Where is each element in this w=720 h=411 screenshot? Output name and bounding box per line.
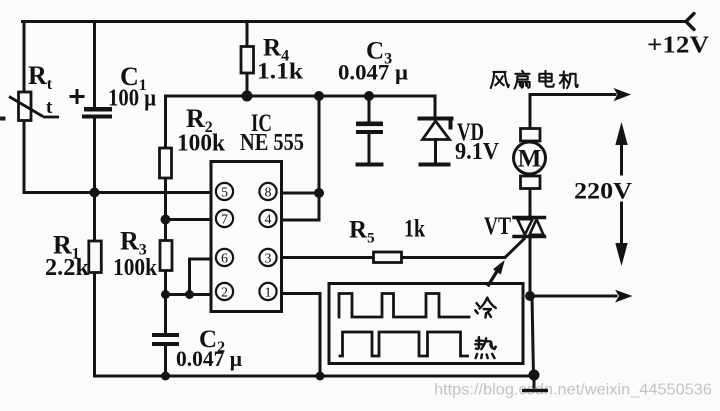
svg-text:220V: 220V <box>574 179 632 204</box>
svg-text:8: 8 <box>265 185 272 200</box>
svg-text:9.1V: 9.1V <box>455 139 500 165</box>
svg-text:M: M <box>518 146 542 173</box>
svg-text:R5: R5 <box>349 217 375 247</box>
svg-text:0.047 μ: 0.047 μ <box>176 346 242 371</box>
svg-text:Rt: Rt <box>28 61 53 93</box>
svg-text:4: 4 <box>265 212 272 227</box>
svg-text:2.2k: 2.2k <box>45 255 90 281</box>
svg-text:100k: 100k <box>177 131 226 157</box>
svg-text:2: 2 <box>221 285 228 300</box>
svg-text:R3: R3 <box>120 227 147 259</box>
svg-text:100k: 100k <box>113 255 158 281</box>
svg-text:https://blog.csdn.net/weixin_4: https://blog.csdn.net/weixin_44550536 <box>434 382 712 399</box>
svg-text:NE 555: NE 555 <box>240 130 304 156</box>
svg-text:6: 6 <box>221 251 228 266</box>
svg-text:1.1k: 1.1k <box>257 59 303 84</box>
svg-text:+12V: +12V <box>647 33 710 59</box>
svg-text:5: 5 <box>221 185 228 200</box>
svg-text:VT: VT <box>484 213 511 240</box>
svg-text:t: t <box>46 97 53 118</box>
svg-text:0.047 μ: 0.047 μ <box>338 60 408 85</box>
svg-text:7: 7 <box>221 212 228 227</box>
svg-text:3: 3 <box>265 251 272 266</box>
svg-text:100 μ: 100 μ <box>108 86 156 112</box>
svg-text:1: 1 <box>265 285 272 300</box>
svg-text:1k: 1k <box>404 216 425 243</box>
